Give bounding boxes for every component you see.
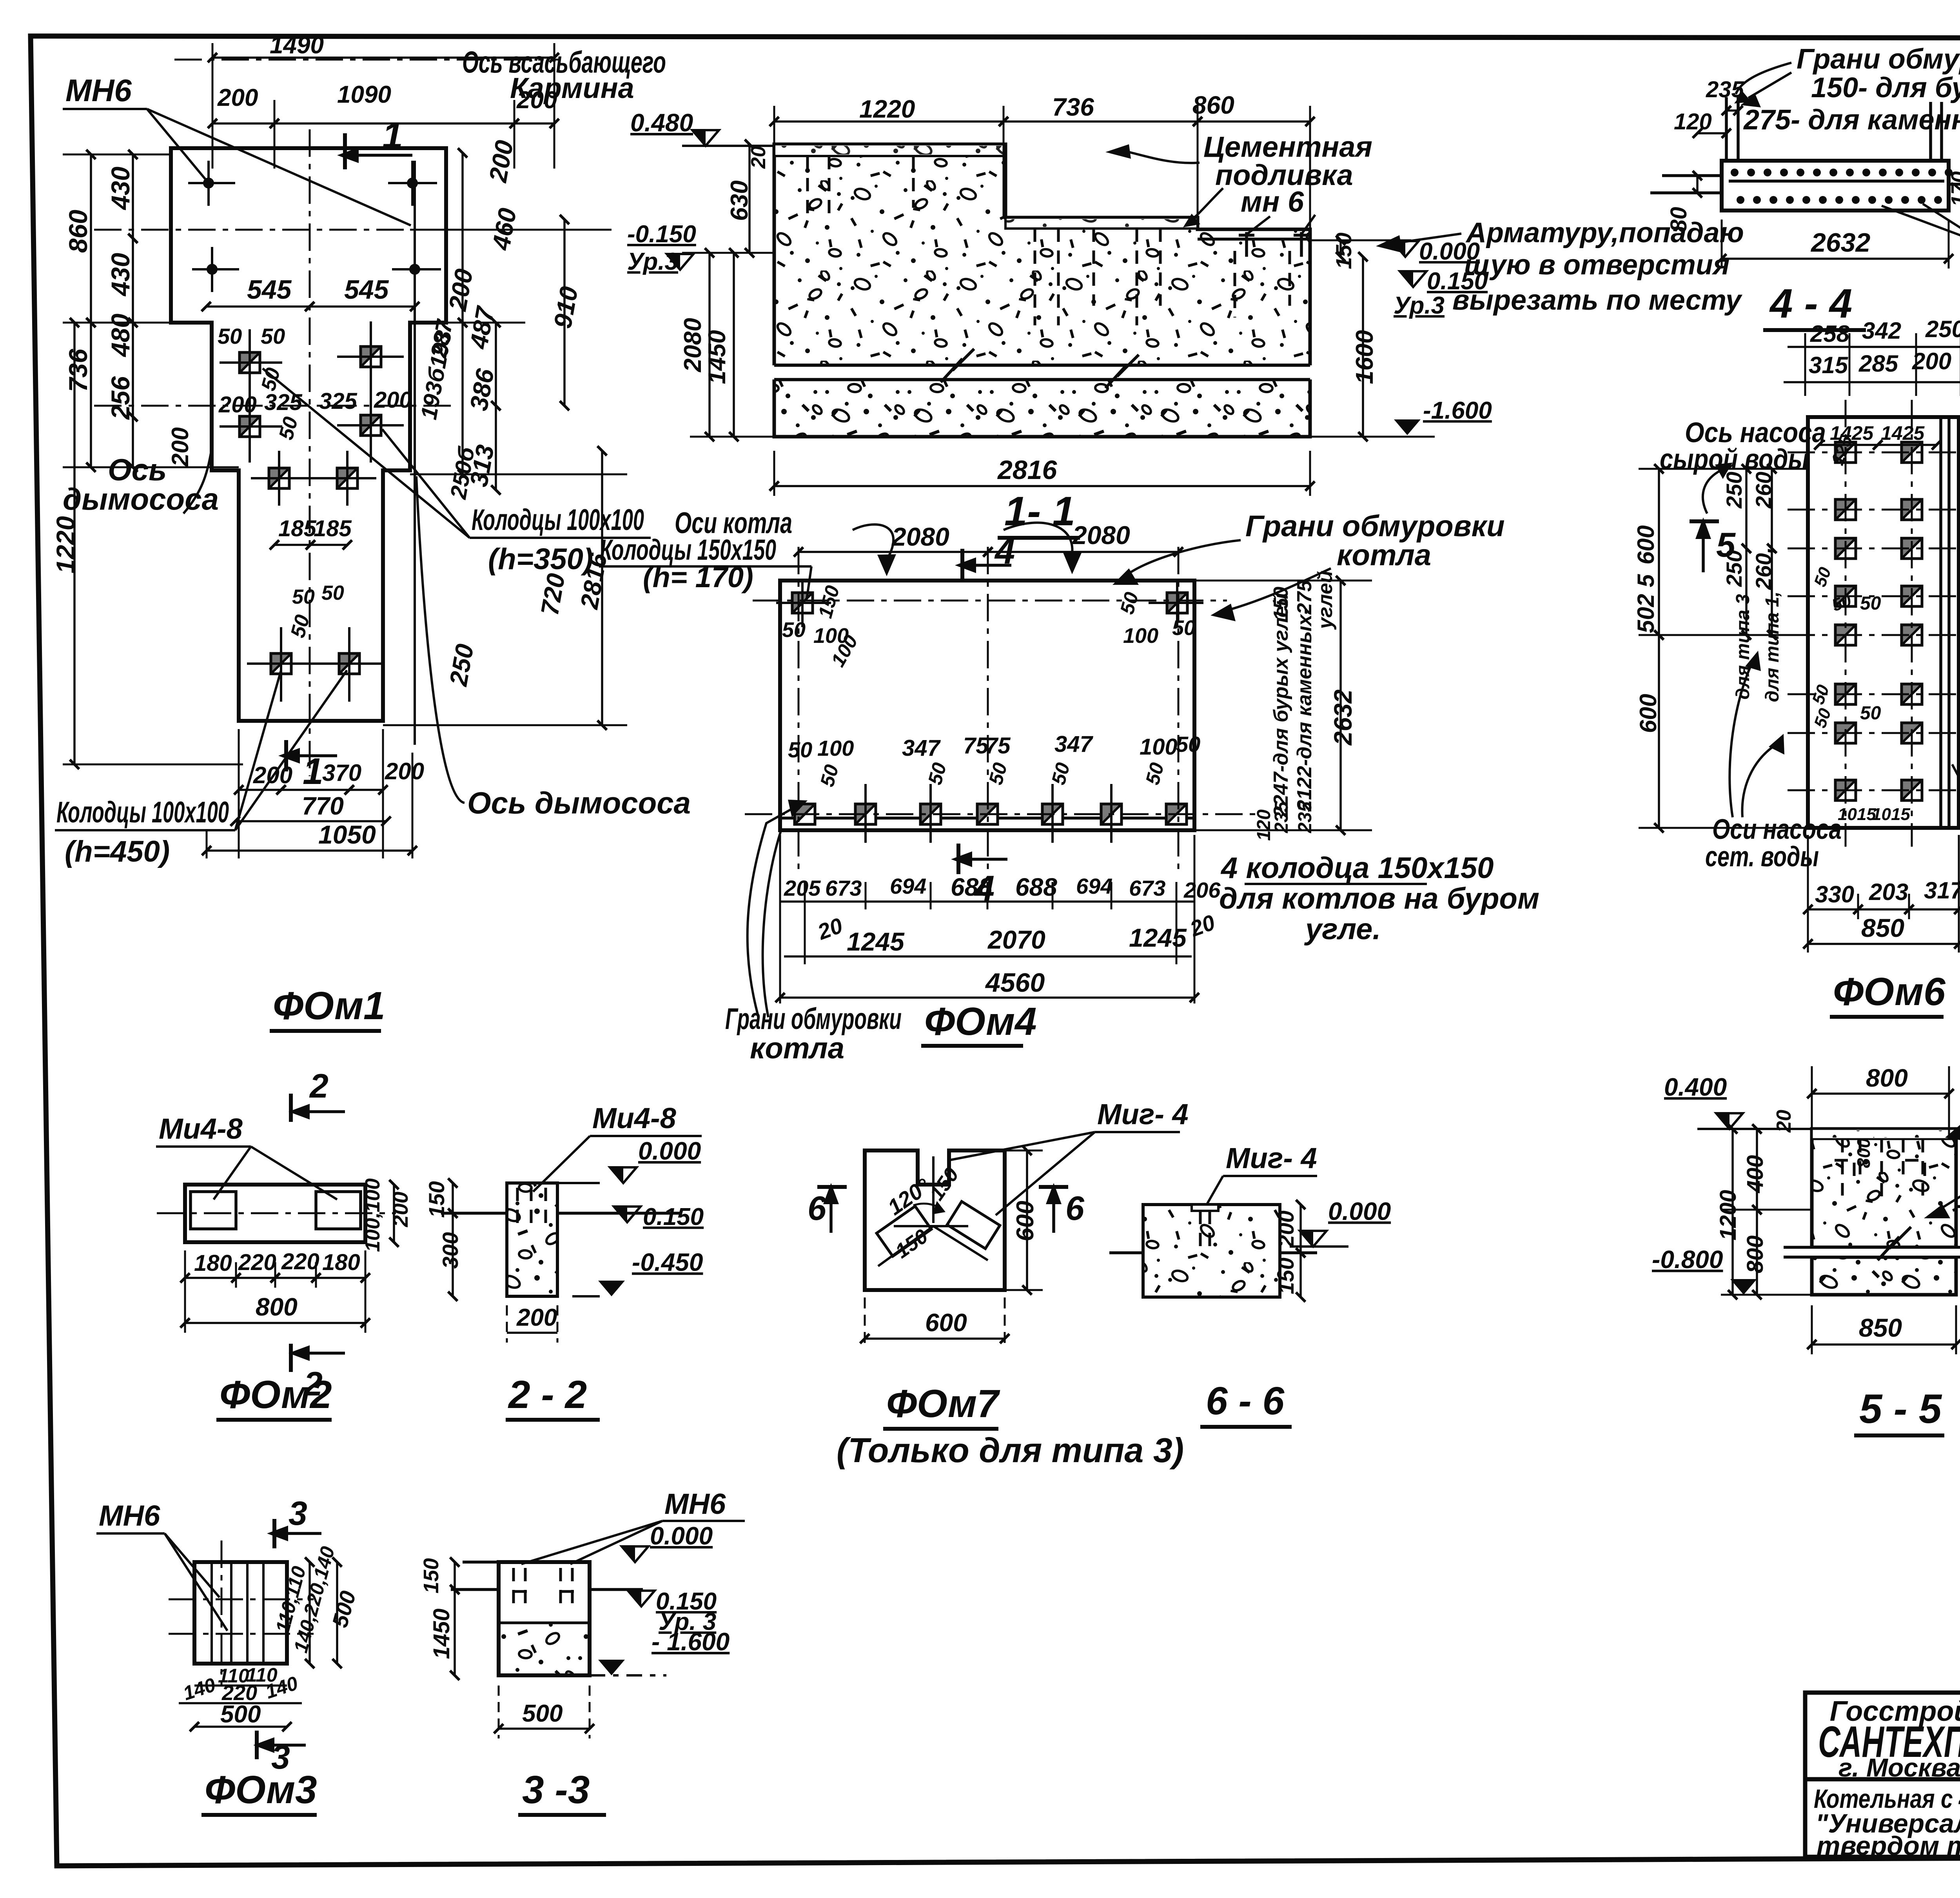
- svg-text:МН6: МН6: [99, 1499, 160, 1532]
- svg-text:2080: 2080: [891, 522, 949, 551]
- svg-text:3: 3: [289, 1495, 307, 1532]
- svg-text:-0.800: -0.800: [1652, 1245, 1723, 1274]
- svg-text:(Только для типа 3): (Только для типа 3): [837, 1431, 1184, 1470]
- svg-text:-0.450: -0.450: [632, 1248, 703, 1276]
- svg-text:Ми4-8: Ми4-8: [159, 1112, 243, 1145]
- svg-text:-1.600: -1.600: [1423, 397, 1492, 424]
- svg-text:630: 630: [726, 180, 753, 221]
- svg-text:мн 6: мн 6: [1241, 185, 1304, 218]
- svg-text:170: 170: [1947, 171, 1960, 207]
- svg-text:20: 20: [1773, 1110, 1795, 1133]
- svg-text:углей: углей: [1314, 570, 1337, 630]
- svg-text:твердом топливе: твердом топливе: [1817, 1831, 1960, 1861]
- svg-text:285: 285: [1858, 350, 1899, 377]
- svg-text:150: 150: [424, 1181, 449, 1218]
- svg-text:6: 6: [1065, 1190, 1085, 1227]
- svg-text:370: 370: [322, 760, 361, 786]
- svg-text:430: 430: [106, 253, 135, 297]
- svg-text:260: 260: [1751, 472, 1776, 508]
- svg-text:673: 673: [1129, 876, 1165, 900]
- svg-text:Цементная: Цементная: [1203, 131, 1372, 163]
- svg-text:200: 200: [374, 387, 412, 413]
- svg-text:275: 275: [1293, 580, 1316, 615]
- svg-text:200: 200: [217, 84, 258, 111]
- svg-text:220: 220: [238, 1250, 276, 1275]
- svg-text:1015: 1015: [1838, 805, 1876, 824]
- svg-text:щую в отверстия: щую в отверстия: [1464, 249, 1730, 281]
- svg-text:325: 325: [264, 390, 303, 415]
- svg-text:1015: 1015: [1872, 805, 1910, 824]
- svg-text:694: 694: [1076, 874, 1112, 898]
- svg-text:0.150: 0.150: [643, 1203, 704, 1230]
- svg-text:347: 347: [902, 735, 941, 761]
- svg-text:2816: 2816: [997, 455, 1057, 485]
- svg-text:330: 330: [1815, 881, 1854, 907]
- svg-text:Миг- 4: Миг- 4: [1226, 1142, 1317, 1174]
- svg-text:400: 400: [1742, 1155, 1768, 1194]
- svg-text:75: 75: [985, 733, 1011, 758]
- svg-text:180: 180: [322, 1250, 360, 1275]
- svg-text:2080: 2080: [679, 318, 706, 372]
- svg-text:315: 315: [1809, 352, 1849, 378]
- svg-text:206: 206: [1183, 878, 1221, 902]
- svg-text:50: 50: [218, 324, 242, 348]
- svg-text:203: 203: [1869, 879, 1908, 905]
- svg-text:860: 860: [64, 210, 93, 253]
- svg-text:1245: 1245: [847, 927, 905, 956]
- svg-text:150: 150: [1274, 1257, 1298, 1294]
- svg-text:4: 4: [994, 532, 1015, 572]
- svg-text:ФОм7: ФОм7: [886, 1382, 1000, 1426]
- svg-text:250: 250: [1925, 316, 1960, 342]
- svg-text:205: 205: [784, 876, 821, 900]
- svg-text:736: 736: [1052, 93, 1094, 121]
- svg-text:300: 300: [438, 1232, 463, 1268]
- svg-text:688: 688: [1015, 873, 1057, 901]
- svg-text:ФОм3: ФОм3: [205, 1768, 317, 1812]
- svg-text:Грани обмуровки: Грани обмуровки: [725, 1002, 902, 1036]
- svg-text:185: 185: [278, 516, 317, 541]
- svg-text:1425: 1425: [1881, 422, 1925, 444]
- svg-text:50: 50: [321, 582, 344, 604]
- svg-text:80: 80: [1666, 207, 1691, 232]
- svg-text:545: 545: [247, 275, 292, 305]
- svg-text:Миг- 4: Миг- 4: [1097, 1098, 1189, 1130]
- svg-text:0.000: 0.000: [650, 1522, 713, 1550]
- svg-text:2632: 2632: [1810, 228, 1870, 258]
- svg-text:Колодцы 100х100: Колодцы 100х100: [472, 503, 644, 537]
- svg-text:120: 120: [1674, 109, 1712, 134]
- svg-text:185: 185: [314, 516, 352, 541]
- svg-text:325: 325: [319, 388, 358, 414]
- svg-text:200: 200: [385, 758, 424, 784]
- svg-text:6 - 6: 6 - 6: [1206, 1379, 1285, 1423]
- svg-text:500: 500: [522, 1700, 563, 1727]
- svg-text:МН6: МН6: [664, 1488, 726, 1520]
- svg-text:0.000: 0.000: [1328, 1197, 1391, 1225]
- svg-text:50: 50: [261, 324, 285, 348]
- svg-text:800: 800: [256, 1293, 298, 1321]
- svg-text:г. Москва 1971г.: г. Москва 1971г.: [1838, 1753, 1960, 1782]
- svg-text:котла: котла: [750, 1032, 844, 1065]
- svg-text:1220: 1220: [859, 95, 915, 123]
- svg-text:Ми4-8: Ми4-8: [592, 1102, 677, 1134]
- svg-text:1200: 1200: [1715, 1190, 1741, 1240]
- svg-text:150: 150: [1270, 587, 1292, 621]
- svg-text:4 колодца 150х150: 4 колодца 150х150: [1220, 851, 1494, 885]
- svg-text:Кармина: Кармина: [510, 72, 634, 104]
- svg-text:50: 50: [1860, 703, 1881, 724]
- svg-text:МН6: МН6: [65, 73, 132, 108]
- svg-text:вырезать по месту: вырезать по месту: [1452, 285, 1743, 316]
- svg-text:200: 200: [1912, 348, 1951, 374]
- svg-text:545: 545: [344, 275, 389, 305]
- svg-text:736: 736: [64, 348, 93, 392]
- svg-text:3 -3: 3 -3: [522, 1768, 590, 1812]
- svg-text:-0.150: -0.150: [627, 221, 696, 248]
- svg-text:ФОм6: ФОм6: [1833, 970, 1946, 1014]
- svg-text:угле.: угле.: [1304, 913, 1381, 946]
- svg-text:100: 100: [1140, 734, 1178, 760]
- svg-text:5 - 5: 5 - 5: [1859, 1386, 1942, 1432]
- svg-text:673: 673: [825, 876, 862, 900]
- svg-text:200: 200: [389, 1192, 412, 1227]
- svg-text:0.400: 0.400: [1664, 1073, 1727, 1101]
- svg-text:120: 120: [1254, 809, 1274, 841]
- svg-text:600: 600: [925, 1308, 967, 1337]
- svg-text:1050: 1050: [318, 820, 376, 849]
- svg-text:50: 50: [1176, 732, 1200, 757]
- svg-text:котла: котла: [1337, 539, 1431, 572]
- svg-text:Ур.3: Ур.3: [1394, 292, 1445, 319]
- svg-text:2: 2: [309, 1067, 328, 1105]
- svg-text:860: 860: [1192, 91, 1234, 119]
- svg-text:100: 100: [817, 736, 854, 760]
- svg-text:ФОм1: ФОм1: [273, 984, 385, 1028]
- svg-text:800: 800: [1742, 1236, 1768, 1274]
- svg-text:200: 200: [167, 427, 193, 467]
- svg-text:1490: 1490: [270, 32, 324, 59]
- svg-text:1- 1: 1- 1: [1004, 488, 1075, 534]
- svg-text:2247-для бурых углей: 2247-для бурых углей: [1270, 594, 1292, 818]
- svg-text:317: 317: [1924, 877, 1960, 904]
- svg-text:1: 1: [382, 115, 403, 156]
- svg-text:1600: 1600: [1351, 330, 1378, 384]
- svg-text:50: 50: [788, 737, 812, 762]
- svg-text:сет. воды: сет. воды: [1705, 841, 1819, 873]
- svg-text:50: 50: [1172, 616, 1196, 640]
- svg-text:260,: 260,: [1751, 547, 1776, 590]
- svg-text:688: 688: [951, 873, 993, 901]
- svg-text:347: 347: [1054, 731, 1094, 757]
- svg-text:6: 6: [808, 1190, 827, 1227]
- svg-text:для котлов на буром: для котлов на буром: [1219, 882, 1539, 915]
- svg-text:1: 1: [303, 751, 323, 792]
- svg-text:50: 50: [782, 618, 806, 642]
- svg-text:1245: 1245: [1129, 923, 1187, 952]
- svg-text:1090: 1090: [337, 81, 391, 108]
- svg-text:ФОм2: ФОм2: [220, 1373, 332, 1417]
- svg-text:180: 180: [194, 1250, 232, 1276]
- svg-text:2122-для каменных-: 2122-для каменных-: [1293, 608, 1316, 811]
- svg-text:2070: 2070: [987, 925, 1045, 954]
- svg-text:235: 235: [1295, 801, 1316, 833]
- svg-text:600: 600: [1012, 1201, 1039, 1241]
- svg-text:342: 342: [1862, 318, 1901, 344]
- svg-text:5: 5: [1716, 525, 1736, 564]
- svg-text:200: 200: [218, 392, 257, 417]
- svg-text:0.480: 0.480: [630, 109, 693, 137]
- svg-text:258: 258: [1810, 321, 1850, 347]
- svg-text:сырой воды: сырой воды: [1660, 444, 1809, 475]
- svg-text:100,100: 100,100: [361, 1178, 384, 1252]
- svg-text:50: 50: [292, 586, 315, 608]
- svg-text:256: 256: [106, 376, 135, 420]
- svg-text:ФОм4: ФОм4: [924, 1000, 1037, 1043]
- svg-text:1450: 1450: [429, 1608, 454, 1659]
- svg-text:770: 770: [302, 792, 344, 820]
- svg-text:Арматуру,попадаю: Арматуру,попадаю: [1465, 217, 1744, 249]
- svg-text:2080: 2080: [1072, 521, 1130, 550]
- svg-text:Оси насоса: Оси насоса: [1712, 814, 1842, 845]
- svg-text:Ур.3: Ур.3: [627, 248, 678, 275]
- svg-text:для типа 1,: для типа 1,: [1762, 592, 1783, 702]
- svg-text:150- для бурого угля: 150- для бурого угля: [1811, 72, 1960, 103]
- svg-text:2 - 2: 2 - 2: [508, 1373, 587, 1417]
- svg-text:800: 800: [1853, 1138, 1874, 1168]
- svg-text:(h=350): (h=350): [488, 543, 593, 576]
- svg-text:600: 600: [1635, 694, 1661, 733]
- svg-text:Грани обмуровки: Грани обмуровки: [1245, 510, 1505, 543]
- svg-text:100: 100: [1123, 624, 1158, 648]
- svg-text:480: 480: [106, 314, 135, 357]
- svg-text:850: 850: [1861, 913, 1904, 942]
- svg-text:220: 220: [281, 1249, 319, 1274]
- svg-text:200: 200: [516, 1304, 557, 1331]
- svg-text:1450: 1450: [704, 330, 731, 384]
- svg-text:2632: 2632: [1329, 690, 1357, 746]
- svg-text:150: 150: [1331, 232, 1356, 269]
- svg-text:850: 850: [1859, 1313, 1902, 1342]
- svg-text:250: 250: [1722, 472, 1746, 508]
- svg-text:430: 430: [106, 167, 135, 210]
- svg-text:694: 694: [890, 874, 926, 898]
- svg-text:500: 500: [220, 1701, 261, 1728]
- svg-text:4 - 4: 4 - 4: [1769, 281, 1852, 327]
- svg-text:200: 200: [1274, 1210, 1298, 1247]
- svg-text:600: 600: [1633, 525, 1659, 564]
- svg-text:275- для каменного: 275- для каменного: [1743, 104, 1960, 136]
- svg-text:(h=450): (h=450): [65, 835, 170, 868]
- svg-text:1220: 1220: [51, 516, 80, 573]
- svg-text:0.000: 0.000: [638, 1137, 701, 1165]
- svg-text:Ось дымососа: Ось дымососа: [467, 786, 691, 820]
- svg-text:150: 150: [419, 1558, 443, 1593]
- svg-text:50: 50: [1860, 593, 1881, 614]
- svg-text:Колодцы 100х100: Колодцы 100х100: [56, 796, 229, 829]
- svg-text:- 1.600: - 1.600: [652, 1628, 730, 1656]
- svg-text:502 5: 502 5: [1633, 573, 1659, 633]
- svg-text:4560: 4560: [985, 968, 1045, 998]
- svg-text:Грани обмуровки котла: Грани обмуровки котла: [1797, 44, 1960, 75]
- svg-text:800: 800: [1866, 1064, 1908, 1092]
